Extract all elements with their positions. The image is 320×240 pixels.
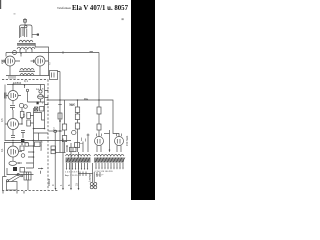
tube V6 — [8, 146, 19, 157]
output transformer Tr3 tap wires — [67, 134, 88, 153]
node bus y152 — [33, 151, 35, 153]
capacitor box with cross — [35, 107, 38, 111]
center tap wire — [109, 130, 111, 152]
wire y131 — [49, 130, 63, 132]
resistor R8 — [35, 142, 41, 147]
tube V3 — [35, 56, 45, 66]
pot wiper wire — [17, 162, 22, 164]
node pot wiper — [18, 162, 20, 164]
component box — [20, 168, 25, 173]
switch S1 contact 2 — [17, 174, 19, 176]
resistor R5 on HT — [97, 107, 101, 114]
node x60 y100 — [59, 99, 61, 101]
tube V2 — [5, 56, 15, 66]
svg-text:1 2 3 4 5 6 7 8: 1 2 3 4 5 6 7 8 — [65, 172, 80, 174]
capacitor C8 — [62, 136, 66, 142]
node x33 y140 — [33, 140, 35, 142]
rectifier heater lead wires — [97, 145, 121, 152]
svg-text:Rückkopp: Rückkopp — [40, 140, 43, 151]
terminal wire a — [62, 139, 64, 189]
scan speck near title — [14, 13, 16, 15]
indicator lamp La — [38, 95, 44, 99]
node V5 grid — [21, 123, 22, 124]
density marks above Tr3 — [80, 138, 86, 144]
input transformer Tr1 secondary — [17, 47, 35, 49]
small box above output transformer — [75, 143, 80, 148]
left rail lower wire — [4, 143, 6, 177]
capacitor C4 cathode — [10, 106, 15, 111]
dropper wire top — [77, 100, 79, 107]
speaker pins — [80, 172, 86, 177]
jack loop 2 — [90, 186, 93, 189]
tube V4 — [8, 91, 18, 101]
terminal box pair lower — [51, 150, 56, 154]
capacitor C9 — [75, 114, 79, 120]
Tr4 primary tap pins — [96, 163, 123, 168]
small component box — [40, 107, 44, 112]
potentiometer oval — [9, 161, 17, 165]
terminal wire c — [78, 152, 80, 189]
vertical wire x44 — [44, 85, 46, 129]
vertical wire x64 — [64, 100, 66, 153]
node bus y146 — [33, 145, 35, 147]
fuse Si1 — [13, 51, 17, 55]
node bus y157 — [33, 156, 35, 158]
tick on tap x88 — [87, 134, 90, 136]
zigzag wire to x44 — [34, 113, 45, 121]
resistor R7 — [20, 146, 24, 151]
small box on Tr3 taps — [70, 147, 77, 151]
switch S1 contact 1 — [6, 180, 8, 182]
svg-text:0,1: 0,1 — [0, 148, 4, 152]
jack loop 1 — [90, 183, 93, 186]
pilot link wire — [27, 92, 29, 102]
wire to supply bus x60 — [58, 72, 61, 153]
interstage transformer Tr2 secondary — [20, 73, 34, 75]
tube V1 anode lead wire — [32, 34, 37, 36]
small box right of R7 — [25, 143, 29, 146]
power transformer Tr4 winding — [94, 154, 124, 156]
tick marks on mains wire — [63, 51, 93, 53]
dark component blob — [37, 102, 39, 105]
pin stubs above rectifiers — [97, 134, 122, 137]
aux pins — [97, 172, 100, 177]
resistor R3 — [27, 120, 31, 126]
output transformer Tr3 core — [66, 158, 91, 163]
switch S1 blades — [8, 175, 22, 182]
screen supply wire y100 — [47, 99, 100, 101]
power transformer Tr4 core — [94, 158, 124, 163]
capacitor C6 — [21, 131, 25, 139]
input transformer Tr1 core — [17, 44, 35, 45]
Tr1 secondary tap wires — [20, 49, 32, 53]
capacitor C3 — [5, 93, 7, 99]
double wire to jacks — [93, 163, 95, 182]
socket comb ticks — [9, 76, 15, 79]
electrolytic circle — [72, 130, 76, 134]
tube V6 side lead — [19, 151, 23, 153]
tube V1 grid cap node — [25, 25, 27, 27]
svg-text:Telefunken: Telefunken — [57, 6, 71, 10]
node dropper top — [77, 99, 79, 101]
node x44 y128 — [44, 128, 46, 130]
jack loop 3 — [94, 183, 97, 186]
terminal wire b — [70, 143, 72, 189]
R4 to C9 wire — [77, 113, 79, 115]
svg-text:Rückk: Rückk — [47, 178, 51, 186]
jack loop 4 — [94, 186, 97, 189]
anode lead terminal square — [37, 34, 39, 36]
capacitor C1 — [4, 60, 6, 64]
Tr3 pin arrowheads — [66, 168, 88, 170]
small node circle V6 — [21, 154, 25, 158]
svg-text:0,5: 0,5 — [0, 118, 4, 122]
capacitor C10 — [75, 123, 79, 129]
resistor R1 — [20, 112, 24, 118]
wire anode bus y140 — [5, 140, 34, 142]
choke down wire — [27, 180, 29, 190]
resistor R6 on HT — [97, 124, 101, 130]
scan speck top-right — [122, 18, 124, 20]
wire branch to rectifier B — [99, 100, 119, 137]
node on y140 wire — [12, 140, 13, 141]
volume control box P1 — [50, 71, 58, 80]
tick below arrow — [40, 171, 42, 174]
capacitor C7 — [62, 124, 66, 130]
indicator lamp stem — [40, 85, 42, 91]
svg-text:0 110 125 150 220: 0 110 125 150 220 — [95, 171, 114, 173]
bottom rail terminal ticks — [3, 191, 24, 194]
node V4 anode — [12, 84, 13, 85]
svg-text:0,1: 0,1 — [24, 79, 28, 83]
small node circle — [24, 105, 28, 109]
terminal box pair upper — [51, 146, 56, 150]
bus wire preamp bottom — [6, 75, 50, 77]
svg-text:150 Sieb: 150 Sieb — [125, 135, 129, 146]
interstage transformer Tr2 primary — [20, 68, 34, 70]
node x60 y131 — [59, 130, 61, 132]
tap stub on grid bus — [24, 85, 26, 89]
horizontal wires y128 y133 y140 — [34, 129, 72, 141]
arrow terminal d — [38, 168, 42, 170]
capacitor box on x60 — [58, 113, 62, 119]
stub wires on bus x33 — [26, 146, 34, 168]
tube V5 — [8, 119, 19, 130]
resistor R2 — [27, 113, 31, 119]
rectifier tube Gl1 — [95, 137, 104, 146]
electrolytic dark block — [13, 167, 17, 171]
R1 lead wires — [21, 108, 23, 124]
relay box — [7, 182, 18, 191]
screen node circle — [19, 103, 23, 107]
pilot node circle — [26, 89, 28, 91]
electrolytic block — [21, 139, 24, 142]
tick on x60 — [58, 104, 61, 106]
rectifier tube Gl2 — [115, 137, 124, 146]
HT wire down right side — [98, 53, 100, 137]
resistor R4 — [75, 107, 79, 113]
wire tube anodes down — [10, 66, 40, 76]
wire y152 link — [56, 152, 66, 154]
node center tap — [109, 149, 111, 151]
node A tap — [20, 53, 22, 57]
lamp lower wires — [28, 99, 45, 102]
switch S1 contact 3 — [21, 175, 23, 177]
indicator lamp node — [39, 90, 42, 93]
dropper wire bottom — [77, 129, 79, 152]
wire y133 link — [104, 133, 110, 135]
mains wire top rail — [6, 52, 99, 54]
node above R7 — [21, 143, 23, 145]
svg-text:Lautspr: Lautspr — [88, 173, 92, 182]
tube V6 cathode wire — [12, 157, 14, 161]
tube V5 side leads — [5, 123, 22, 125]
node HT junction — [98, 99, 100, 101]
left supply rail wire — [4, 85, 6, 141]
terminal jack oval — [54, 130, 57, 132]
node Tr3 tap — [66, 145, 68, 147]
tube V1 envelope — [20, 25, 33, 38]
tube V1 grid cap stem — [24, 18, 27, 25]
input terminal wires — [3, 177, 7, 191]
svg-text:Netz V~: Netz V~ — [96, 174, 105, 177]
terminal arrowheads — [55, 188, 80, 190]
capacitor C2 — [34, 60, 36, 64]
wire y142 and V6 stem — [4, 143, 28, 147]
chassis boundary dashed bottom — [2, 190, 58, 192]
wire Tr1 secondary to divider — [35, 43, 48, 76]
svg-text:Anp. 7 10 15: Anp. 7 10 15 — [65, 174, 78, 177]
choke box with laminations — [24, 172, 31, 180]
Tr3 secondary pins — [67, 163, 88, 169]
tube V4 cathode stem — [12, 101, 14, 105]
C9 to C10 wire — [77, 120, 79, 124]
svg-text:220: 220 — [0, 59, 4, 64]
node y142 — [12, 142, 13, 143]
tube V1 electrodes — [21, 28, 27, 38]
chassis boundary dashed right — [47, 80, 49, 191]
input transformer Tr1 primary — [19, 40, 33, 42]
interstage transformer Tr2 core — [19, 70, 35, 72]
arrow terminals a b c — [45, 91, 48, 105]
svg-text:Ela V 407/1 u. 8057: Ela V 407/1 u. 8057 — [72, 5, 129, 12]
node below R1 — [21, 118, 23, 120]
link wire x38 — [38, 133, 40, 141]
chassis boundary dashed top — [2, 79, 48, 81]
node x60 y121 — [59, 120, 61, 122]
capacitor C5 cathode V5 — [11, 130, 15, 138]
svg-text:EF804: EF804 — [13, 81, 22, 85]
R2 R3 lead wires — [30, 116, 33, 124]
output transformer Tr3 primary — [66, 154, 91, 156]
node x33 y128 — [33, 128, 35, 130]
wire interconnects of preamp row — [2, 53, 49, 62]
grid bus wire — [7, 84, 45, 86]
Tr4 pin arrowheads — [95, 168, 123, 170]
wire y174 — [7, 168, 34, 175]
tube V4 side leads — [6, 95, 21, 97]
main vertical bus x33 — [33, 108, 35, 168]
speaker output wire — [78, 173, 93, 175]
svg-text:Rle: Rle — [84, 97, 89, 101]
scan edge artifact top-left — [0, 0, 1, 9]
wire down from jack — [54, 132, 56, 188]
svg-text:0,1: 0,1 — [22, 113, 26, 117]
black margin strip right of scan — [131, 0, 155, 200]
